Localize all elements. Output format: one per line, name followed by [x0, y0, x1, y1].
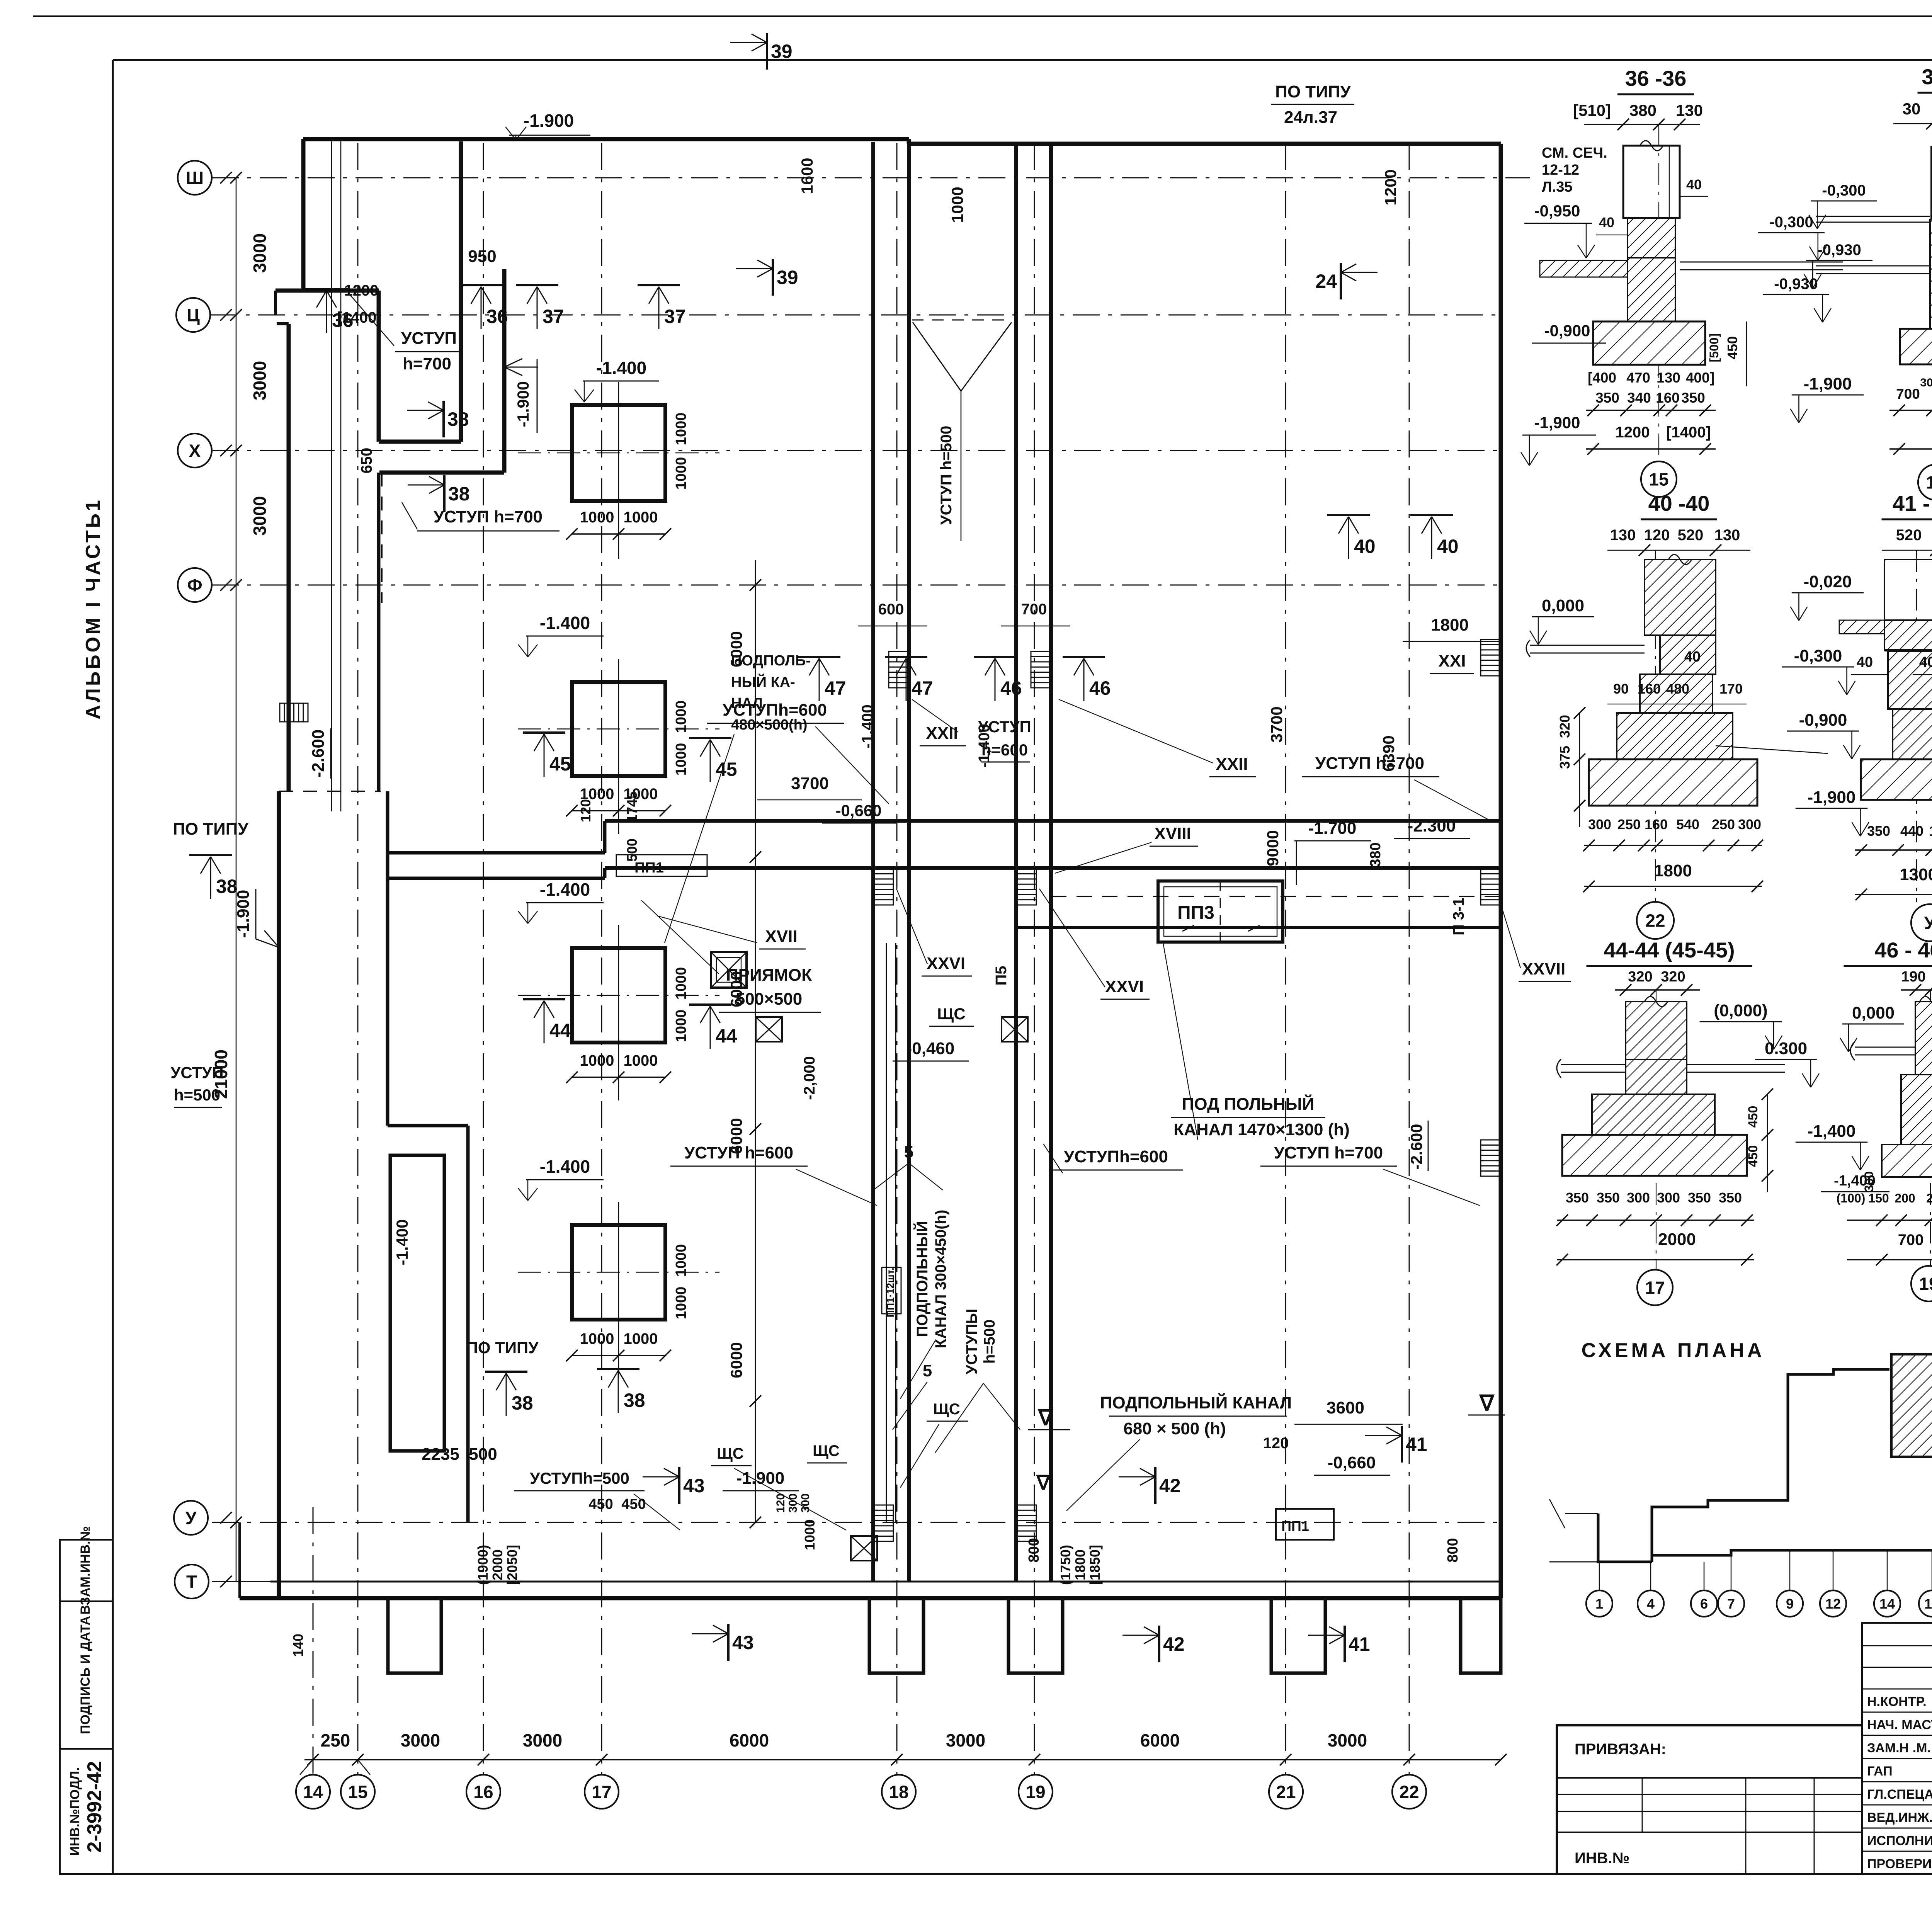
svg-text:∇: ∇: [1036, 1472, 1051, 1494]
svg-text:1000: 1000: [673, 743, 689, 776]
svg-text:14: 14: [303, 1782, 323, 1802]
axis circle U: [174, 1501, 208, 1535]
svg-text:120: 120: [1644, 527, 1670, 544]
svg-text:380: 380: [1367, 842, 1384, 867]
svg-text:46: 46: [1000, 677, 1022, 699]
svg-text:-0,900: -0,900: [1799, 711, 1847, 730]
svg-text:40: 40: [1684, 649, 1701, 665]
svg-text:19: 19: [1924, 1596, 1932, 1612]
svg-text:ПП3: ПП3: [1177, 903, 1214, 923]
svg-text:-1,400: -1,400: [1808, 1122, 1856, 1141]
svg-text:37: 37: [543, 306, 564, 327]
svg-text:170: 170: [1719, 681, 1743, 697]
leader 14: [300, 1760, 313, 1775]
ladder XVII horizontal: [280, 703, 308, 722]
svg-text:500×500: 500×500: [736, 990, 803, 1009]
svg-text:47: 47: [825, 677, 846, 699]
axis15 wall thin a: [331, 141, 332, 811]
stamp box INV N PODL: [60, 1749, 113, 1874]
svg-text:45: 45: [549, 753, 571, 775]
svg-text:ПРОВЕРИЛ: ПРОВЕРИЛ: [1867, 1857, 1932, 1871]
svg-text:XXII: XXII: [926, 724, 958, 743]
svg-text:5: 5: [923, 1361, 932, 1380]
section 44-44 axis line: [1656, 990, 1656, 1269]
svg-text:ВЕД.ИНЖ.: ВЕД.ИНЖ.: [1867, 1810, 1932, 1825]
svg-text:УСТУПh=500: УСТУПh=500: [530, 1469, 629, 1487]
section 36-36 stem: [1628, 258, 1675, 321]
schema outline bottom part: [1652, 1457, 1932, 1555]
axis circle F: [178, 568, 212, 602]
schema hatched block: [1891, 1354, 1932, 1457]
svg-text:-1.400: -1.400: [540, 1156, 590, 1177]
svg-text:130: 130: [1610, 527, 1636, 544]
svg-text:36: 36: [486, 306, 508, 327]
svg-text:300: 300: [1588, 816, 1611, 832]
leader 15: [358, 1760, 370, 1775]
left arm wall bottom: [388, 877, 605, 880]
section mark 24: [1340, 263, 1342, 299]
svg-text:АЛЬБОМ I ЧАСТЬ1: АЛЬБОМ I ЧАСТЬ1: [82, 498, 104, 719]
axis column 16 line: [483, 143, 484, 1775]
svg-text:160: 160: [1656, 390, 1680, 406]
svg-text:1800: 1800: [1072, 1549, 1088, 1580]
svg-text:2000: 2000: [490, 1549, 505, 1580]
svg-text:44-44 (45-45): 44-44 (45-45): [1604, 938, 1735, 962]
footing square F1: [572, 405, 665, 501]
svg-text:ИСПОЛНИЛ.: ИСПОЛНИЛ.: [1867, 1833, 1932, 1848]
plan wall notch x713: [274, 291, 277, 315]
svg-text:0,000: 0,000: [1852, 1003, 1895, 1022]
dashed wall below step: [381, 473, 383, 603]
svg-text:-0,660: -0,660: [835, 801, 881, 820]
axis circle 21: [1269, 1775, 1303, 1809]
svg-text:ПО ТИПУ: ПО ТИПУ: [1275, 82, 1351, 101]
inner frame left: [112, 60, 114, 1874]
svg-text:17: 17: [592, 1782, 611, 1802]
svg-text:-0,950: -0,950: [1534, 202, 1580, 220]
section 41-41 axis line: [1916, 550, 1917, 902]
axis row Sh line: [212, 177, 1530, 179]
svg-text:130: 130: [1714, 527, 1740, 544]
svg-text:УСТУП h=700: УСТУП h=700: [1274, 1143, 1383, 1162]
axis column 19 line: [1034, 143, 1035, 1775]
svg-text:-1,900: -1,900: [1808, 788, 1856, 807]
svg-text:19: 19: [1026, 1782, 1045, 1802]
svg-text:16: 16: [473, 1782, 493, 1802]
pit pryamok 500x500: [711, 952, 747, 988]
svg-text:3000: 3000: [1328, 1730, 1367, 1750]
axis circle T: [175, 1565, 209, 1599]
section 40-40 column: [1645, 560, 1716, 635]
plan wall dashed step y2048: [279, 791, 381, 792]
axis column 14 line: [313, 1507, 314, 1775]
svg-text:1: 1: [1595, 1596, 1603, 1612]
svg-text:24л.37: 24л.37: [1284, 108, 1337, 127]
svg-text:450: 450: [1725, 336, 1740, 359]
axis ticks at circles: [220, 172, 232, 184]
ladder XXVII: [1481, 869, 1501, 905]
svg-text:7: 7: [1727, 1596, 1735, 1612]
svg-text:38: 38: [447, 408, 469, 430]
svg-text:44: 44: [549, 1020, 571, 1041]
svg-text:40: 40: [1437, 536, 1459, 557]
left arm wall top: [388, 851, 605, 855]
svg-text:500: 500: [469, 1445, 497, 1464]
marks 47 47 46 46: [798, 656, 840, 658]
svg-text:45: 45: [716, 759, 737, 780]
svg-text:250: 250: [321, 1730, 350, 1750]
footing square F2: [572, 682, 665, 776]
svg-text:ПО ТИПУ: ПО ТИПУ: [173, 820, 248, 838]
svg-text:700: 700: [1021, 601, 1047, 618]
axis circle 16: [466, 1775, 500, 1809]
svg-text:120: 120: [578, 799, 594, 822]
svg-text:-1,400: -1,400: [859, 704, 876, 748]
inner wall x1003: [386, 791, 389, 1126]
svg-text:700: 700: [1896, 386, 1920, 402]
svg-text:3000: 3000: [250, 361, 270, 400]
svg-text:520: 520: [1678, 527, 1704, 544]
channel 1470 dashed centerline: [1051, 896, 1501, 897]
svg-text:-0,660: -0,660: [1328, 1453, 1376, 1472]
axis circle 22: [1392, 1775, 1426, 1809]
inner wall x1211: [466, 1126, 470, 1522]
mark 45 flag right: [689, 737, 731, 739]
svg-text:14: 14: [1879, 1596, 1895, 1612]
stamp box PODPIS I DATA: [60, 1601, 113, 1749]
svg-text:43: 43: [732, 1632, 754, 1653]
svg-text:ГАП: ГАП: [1867, 1764, 1893, 1779]
svg-text:250: 250: [1617, 816, 1641, 832]
svg-text:-0,300: -0,300: [1794, 646, 1842, 665]
svg-text:600: 600: [878, 601, 904, 618]
svg-text:2235: 2235: [422, 1445, 459, 1464]
svg-text:XXVI: XXVI: [927, 954, 965, 973]
svg-text:-1,900: -1,900: [1804, 374, 1852, 393]
room wall x980: [377, 291, 381, 442]
svg-text:6000: 6000: [727, 631, 745, 667]
svg-text:9: 9: [1786, 1596, 1794, 1612]
section 37-37 wall: [1931, 147, 1932, 219]
svg-text:47: 47: [912, 677, 933, 699]
svg-text:19: 19: [1919, 1274, 1932, 1294]
section 36-36 floor slab left: [1540, 260, 1628, 277]
svg-text:150: 150: [1868, 1191, 1889, 1205]
plan left wall x722 lower: [277, 791, 281, 1598]
axis circle 19: [1019, 1775, 1053, 1809]
svg-text:КАНАЛ 1470×1300 (h): КАНАЛ 1470×1300 (h): [1173, 1120, 1350, 1139]
wall x1305: [502, 269, 507, 473]
svg-text:40: 40: [1919, 654, 1932, 670]
footing square F4: [572, 1225, 665, 1320]
plan bottom wall stub 3: [1009, 1598, 1063, 1673]
stamp box VZAM INV: [60, 1540, 113, 1601]
svg-text:160: 160: [1929, 823, 1932, 839]
svg-text:ПП1: ПП1: [634, 860, 664, 876]
box PP3: [1158, 881, 1283, 942]
svg-text:44: 44: [716, 1025, 737, 1047]
svg-text:30: 30: [1903, 100, 1921, 118]
svg-text:КАНАЛ 300×450(h): КАНАЛ 300×450(h): [932, 1210, 949, 1349]
svg-text:1000: 1000: [624, 509, 658, 526]
section 46-46 column: [1915, 1002, 1932, 1075]
svg-text:Н.КОНТР.: Н.КОНТР.: [1867, 1694, 1927, 1709]
svg-text:470: 470: [1626, 370, 1650, 386]
svg-text:ЩС: ЩС: [717, 1445, 744, 1462]
box PP1 12 pcs: [882, 1267, 901, 1314]
ustup step y2913: [388, 1124, 468, 1128]
svg-text:h=600: h=600: [981, 741, 1028, 759]
plan bottom dimension chain: [304, 1759, 1501, 1760]
svg-text:1200: 1200: [1616, 424, 1650, 441]
svg-text:200: 200: [1926, 1191, 1932, 1205]
axis row T line: [212, 1581, 1501, 1582]
svg-text:320: 320: [1661, 969, 1685, 985]
axis circle Sh: [178, 161, 212, 195]
svg-text:(0,000): (0,000): [1714, 1001, 1767, 1020]
svg-text:1000: 1000: [673, 967, 689, 1000]
svg-text:h=500: h=500: [174, 1086, 220, 1104]
svg-text:П5: П5: [993, 966, 1010, 986]
svg-text:ГЛ.СПЕЦАРХ: ГЛ.СПЕЦАРХ: [1867, 1787, 1932, 1802]
section 44-44 base: [1562, 1135, 1747, 1176]
svg-text:-1.900: -1.900: [524, 111, 574, 131]
svg-text:18: 18: [889, 1782, 908, 1802]
svg-text:ПОД ПОЛЬНЫЙ: ПОД ПОЛЬНЫЙ: [1182, 1094, 1315, 1114]
room bottom y1143: [379, 440, 461, 444]
section 40-40 axis line: [1655, 550, 1656, 902]
inner frame bottom: [113, 1873, 1932, 1875]
svg-text:-0,900: -0,900: [1544, 321, 1590, 340]
svg-text:3700: 3700: [791, 774, 829, 793]
svg-text:-0,020: -0,020: [1804, 572, 1852, 591]
svg-text:1000: 1000: [673, 1244, 689, 1277]
ladder P3-1 top: [1481, 639, 1501, 676]
schema bottom circles: [1599, 1562, 1600, 1590]
svg-text:1200: 1200: [344, 282, 379, 299]
ustup wedge dashed top: [912, 320, 1012, 321]
plan bottom wall thick: [240, 1596, 1501, 1600]
box PP1 bottom right: [1276, 1509, 1334, 1540]
section 44-44 step: [1592, 1094, 1715, 1135]
plan bottom wall stub 1: [388, 1598, 441, 1673]
svg-text:ПОДПОЛЬНЫЙ КАНАЛ: ПОДПОЛЬНЫЙ КАНАЛ: [1100, 1393, 1292, 1412]
names table rows: [1862, 1645, 1932, 1646]
svg-text:Х: Х: [189, 441, 201, 461]
section 37-37 base: [1900, 329, 1932, 364]
svg-text:1000: 1000: [580, 1330, 614, 1347]
inner wall x980 lower: [377, 473, 381, 791]
svg-text:350: 350: [1681, 390, 1705, 406]
left arm connectors: [603, 821, 607, 853]
svg-text:∇: ∇: [1479, 1391, 1495, 1415]
svg-text:650: 650: [358, 448, 375, 474]
svg-text:3700: 3700: [1267, 706, 1286, 742]
ladder XXVI left: [873, 869, 893, 905]
axis row U line: [212, 1522, 1501, 1523]
svg-text:XXII: XXII: [1216, 755, 1248, 774]
section 36-36 column: [1623, 146, 1680, 218]
plan left wall upper x785: [301, 139, 306, 291]
svg-text:350: 350: [1719, 1190, 1742, 1206]
svg-text:3000: 3000: [946, 1730, 985, 1750]
svg-text:1745: 1745: [624, 791, 640, 822]
svg-text:41: 41: [1406, 1434, 1427, 1455]
svg-text:2000: 2000: [1658, 1230, 1696, 1249]
axis15 wall thin b: [340, 141, 342, 811]
crossed square shchs 2: [1002, 1017, 1028, 1042]
crossed square shchs 1: [756, 1017, 782, 1042]
section 40-40 neck: [1660, 635, 1716, 674]
axis row X line: [212, 450, 1501, 451]
axis circle U below 41-41: [1911, 904, 1932, 941]
svg-text:1800: 1800: [1654, 861, 1692, 880]
ladder ustup right: [1481, 1140, 1501, 1176]
plan wall step y752: [276, 289, 379, 293]
svg-text:12: 12: [1825, 1596, 1841, 1612]
ustup wedge stem: [961, 391, 962, 541]
svg-text:УСТУП h=700: УСТУП h=700: [1315, 754, 1424, 773]
section 37-37 floor left a: [1816, 216, 1930, 217]
central corridor wall bottom: [605, 866, 1501, 870]
plan left wall x747: [287, 324, 291, 791]
svg-text:УСТУПh=600: УСТУПh=600: [1064, 1147, 1168, 1166]
section 40-40 stem: [1640, 674, 1713, 713]
svg-text:1300: 1300: [1900, 865, 1932, 884]
svg-text:350: 350: [1597, 1190, 1620, 1206]
svg-text:40: 40: [1857, 654, 1873, 670]
axis column 22 line: [1409, 143, 1410, 1775]
svg-text:320: 320: [1628, 969, 1652, 985]
axis column 17 line: [601, 143, 602, 1775]
privyazan box: [1557, 1725, 1862, 1874]
svg-text:24: 24: [1315, 270, 1337, 292]
svg-text:41: 41: [1349, 1633, 1370, 1655]
svg-text:1000: 1000: [802, 1519, 818, 1550]
mark 43 plan: [678, 1467, 680, 1504]
section 40-40 base: [1589, 759, 1757, 806]
svg-text:У: У: [1924, 913, 1932, 933]
svg-text:3000: 3000: [250, 233, 270, 273]
svg-text:450: 450: [621, 1496, 646, 1512]
svg-text:42: 42: [1159, 1475, 1181, 1497]
channel 1470 wall: [1016, 926, 1501, 929]
svg-text:350: 350: [1595, 390, 1619, 406]
left corridor box PP1: [616, 855, 707, 876]
svg-text:XXI: XXI: [1439, 651, 1466, 670]
svg-text:38: 38: [216, 876, 238, 897]
svg-text:1000: 1000: [673, 457, 689, 490]
svg-text:680 × 500 (h): 680 × 500 (h): [1123, 1419, 1226, 1438]
schema outline left part: [1598, 1514, 1652, 1562]
svg-text:17: 17: [1645, 1278, 1665, 1298]
plan bottom wall thin: [270, 1581, 1501, 1583]
crossed square shchs 3: [851, 1536, 877, 1561]
section 46-46 axis line: [1930, 990, 1931, 1265]
svg-text:ПРИВЯЗАН:: ПРИВЯЗАН:: [1575, 1741, 1666, 1758]
svg-text:3000: 3000: [401, 1730, 440, 1750]
svg-text:350: 350: [1688, 1190, 1711, 1206]
svg-text:ПП1: ПП1: [1281, 1518, 1309, 1534]
plan wall notch y838: [277, 322, 289, 325]
plan left dimension chain: [236, 178, 237, 1582]
svg-text:УСТУПh=600: УСТУПh=600: [723, 701, 827, 719]
section 41-41 mid block: [1888, 651, 1932, 709]
svg-text:[500]: [500]: [1707, 333, 1721, 362]
svg-text:38: 38: [624, 1389, 645, 1411]
svg-text:XVII: XVII: [765, 927, 797, 946]
svg-text:350: 350: [1867, 823, 1890, 839]
axis column 21 line: [1285, 143, 1286, 1775]
svg-text:3000: 3000: [250, 496, 270, 536]
svg-text:ПОДПОЛЬНЫЙ: ПОДПОЛЬНЫЙ: [913, 1221, 931, 1337]
plan bottom wall stub 2: [869, 1598, 923, 1673]
axis circle 18: [882, 1775, 916, 1809]
svg-text:ЩС: ЩС: [937, 1005, 965, 1023]
svg-text:-2.600: -2.600: [309, 730, 328, 778]
svg-text:ПО ТИПУ: ПО ТИПУ: [466, 1338, 539, 1357]
svg-text:42: 42: [1163, 1633, 1185, 1655]
svg-text:УСТУП h=500: УСТУП h=500: [938, 426, 955, 525]
svg-text:ПП1·12шт.: ПП1·12шт.: [884, 1268, 896, 1318]
section 37-37 stem: [1930, 219, 1932, 329]
svg-text:-0,930: -0,930: [1774, 276, 1818, 293]
svg-text:140: 140: [290, 1634, 306, 1657]
svg-text:440: 440: [1900, 823, 1923, 839]
svg-text:350: 350: [1566, 1190, 1589, 1206]
svg-text:1000: 1000: [673, 1287, 689, 1320]
svg-text:800: 800: [1026, 1538, 1042, 1562]
svg-text:9000: 9000: [1264, 830, 1282, 866]
section 44-44 stem: [1626, 1060, 1687, 1094]
svg-text:3000: 3000: [523, 1730, 562, 1750]
svg-text:-1,900: -1,900: [1534, 413, 1580, 432]
svg-text:41 - 41: 41 - 41: [1893, 491, 1932, 515]
bottom marks 43 42 41: [727, 1624, 730, 1661]
svg-text:(100): (100): [1837, 1191, 1866, 1205]
svg-text:540: 540: [1676, 816, 1699, 832]
svg-text:-0,300: -0,300: [1822, 182, 1866, 199]
svg-text:ЩС: ЩС: [813, 1442, 840, 1459]
svg-text:40 -40: 40 -40: [1648, 491, 1710, 515]
svg-text:Ц: Ц: [187, 305, 200, 325]
section 41-41 stem: [1893, 709, 1932, 759]
svg-text:400]: 400]: [1686, 370, 1714, 386]
svg-text:1800: 1800: [1431, 616, 1469, 634]
section 36-36 axis line: [1658, 124, 1659, 461]
svg-text:-2,000: -2,000: [801, 1056, 818, 1100]
svg-text:90: 90: [1613, 681, 1629, 697]
axis circle 15: [341, 1775, 375, 1809]
section 36-36 stem upper: [1628, 218, 1675, 258]
svg-text:46: 46: [1089, 677, 1111, 699]
svg-text:-1.900: -1.900: [736, 1469, 785, 1488]
svg-text:39: 39: [771, 41, 793, 62]
section 46-46 base: [1882, 1145, 1932, 1177]
svg-text:[1400]: [1400]: [1666, 424, 1711, 441]
svg-text:-1.900: -1.900: [514, 381, 532, 427]
svg-text:40: 40: [1354, 536, 1376, 557]
svg-text:XXVII: XXVII: [1522, 959, 1566, 978]
plan top wall right segment: [909, 142, 1501, 146]
axis circle 19 below 46-46: [1911, 1266, 1932, 1301]
schema left tick: [1565, 1513, 1598, 1514]
plan bottom wall stub 4: [1271, 1598, 1325, 1673]
svg-text:-2.600: -2.600: [1407, 1124, 1425, 1170]
svg-text:22: 22: [1645, 911, 1665, 931]
plan bottom wall left joint: [238, 1522, 241, 1598]
svg-text:130: 130: [1656, 370, 1680, 386]
